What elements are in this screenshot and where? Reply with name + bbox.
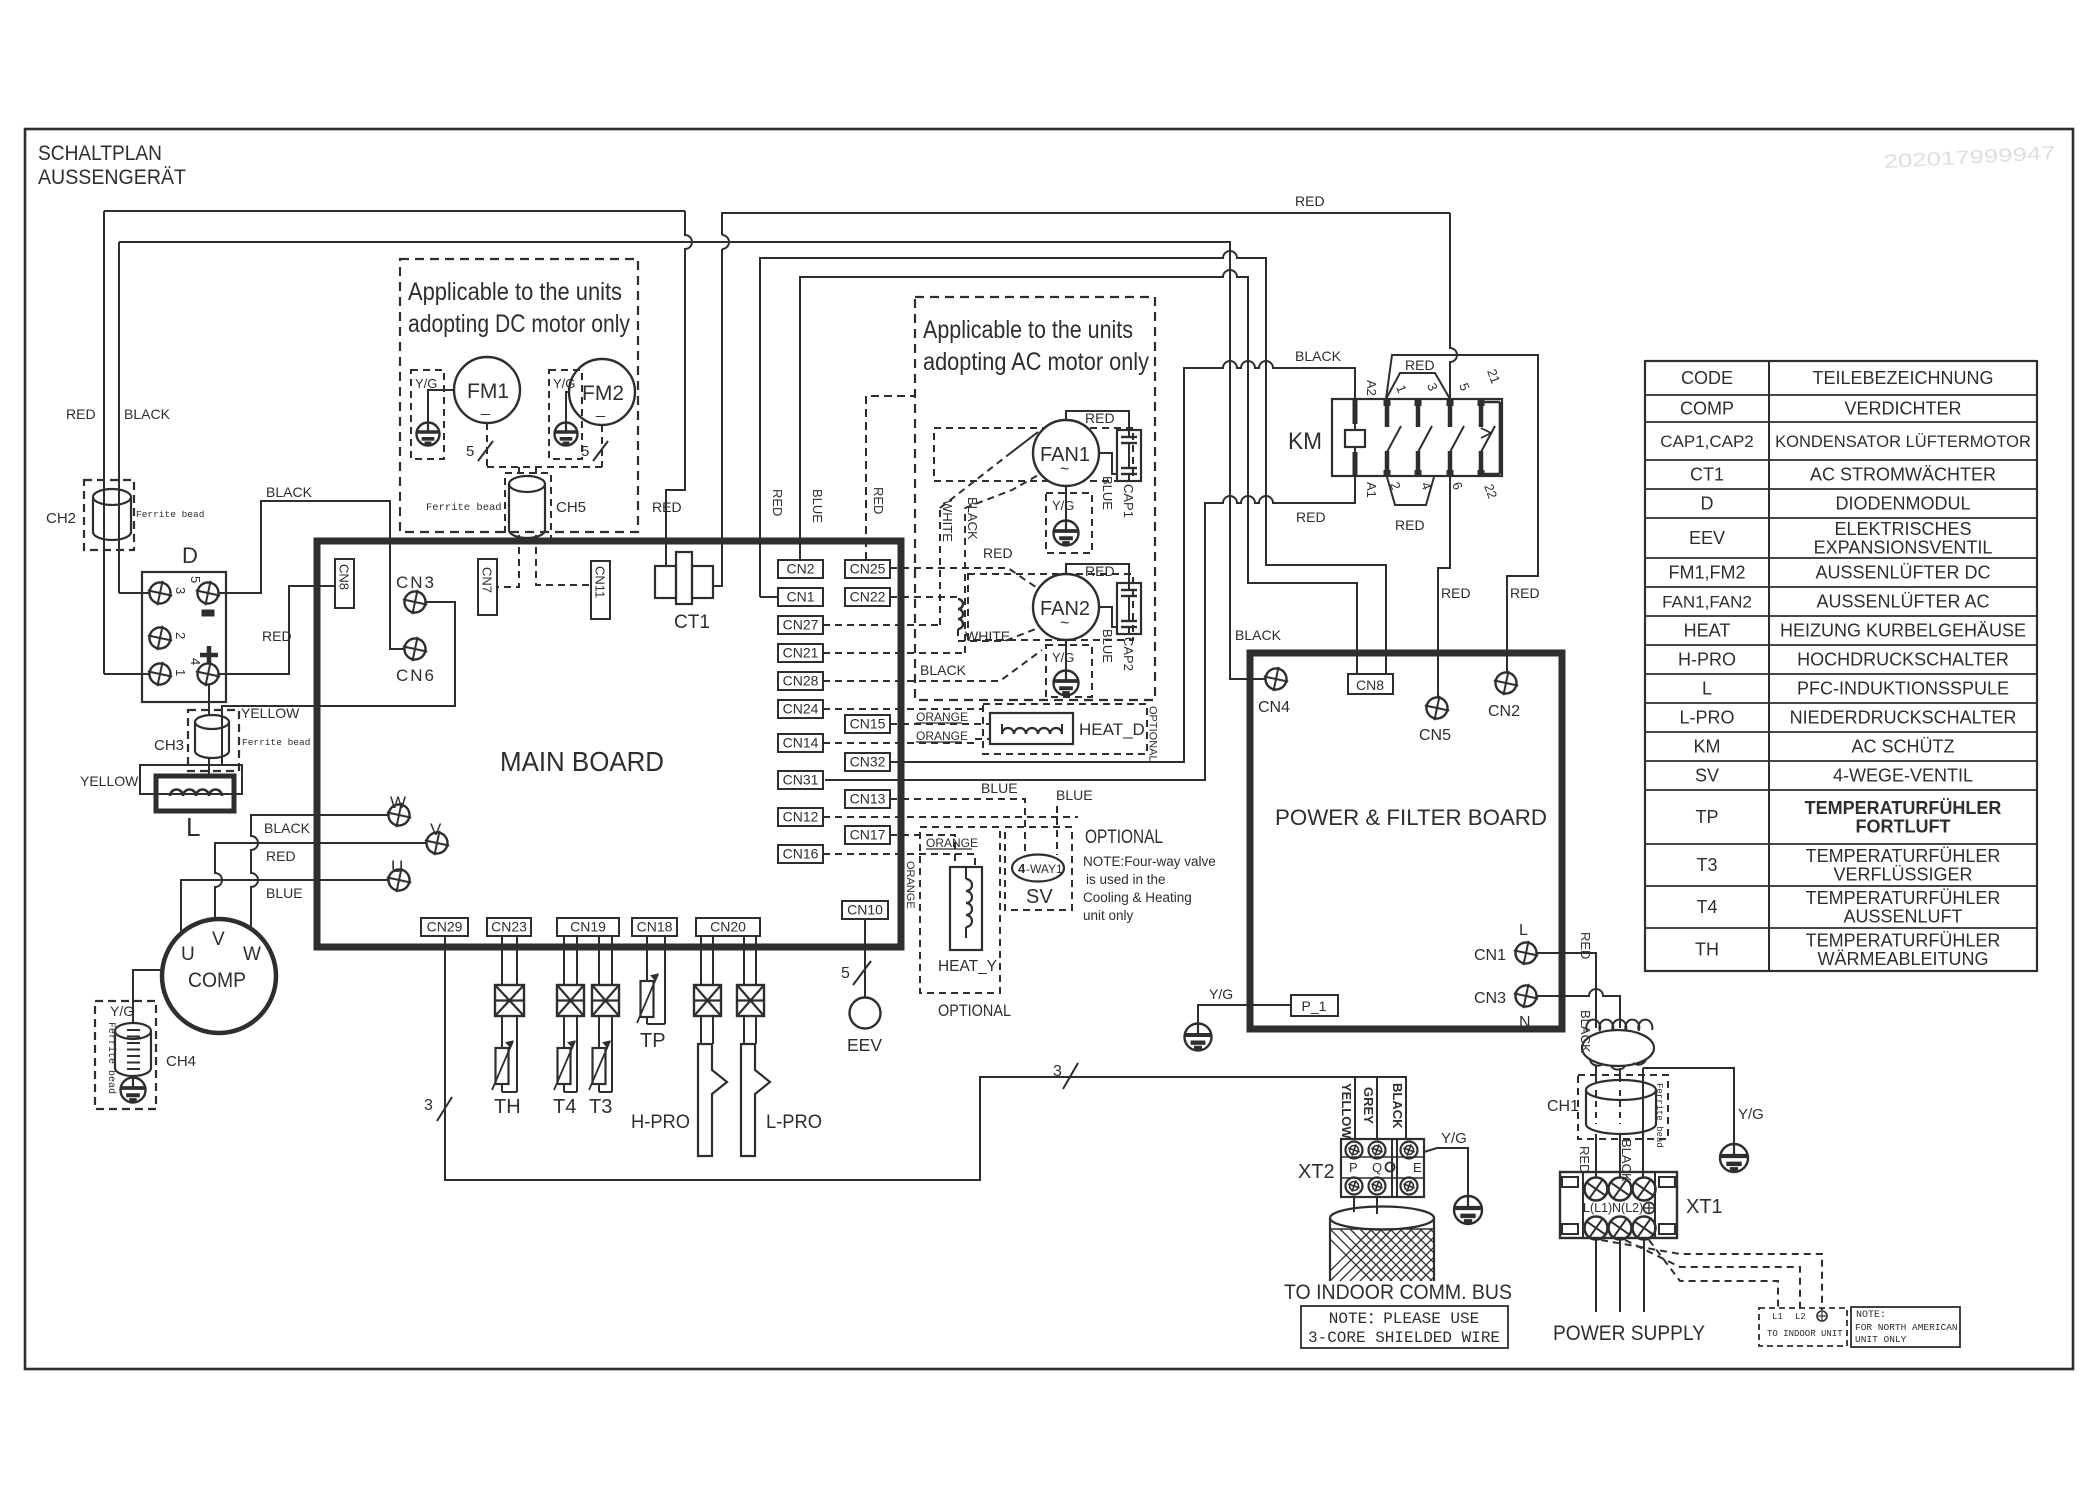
svg-text:BLUE: BLUE [266,885,303,901]
svg-text:D: D [182,543,198,568]
svg-text:AC SCHÜTZ: AC SCHÜTZ [1852,737,1955,757]
4-way valve SV [1012,855,1064,882]
svg-text:EEV: EEV [847,1035,882,1055]
terminal block XT2 [1341,1139,1424,1197]
wire FAN1 BLUE to CAP1 [1099,453,1117,474]
dashed CN14 ORANGE wire [823,739,990,743]
svg-text:is used in the: is used in the [1086,872,1166,887]
dashed harness to CH5 [487,466,602,468]
svg-text:SV: SV [1695,766,1719,786]
wire BLACK top-left vertical to CH2 [118,242,120,593]
connector CN23 [487,918,531,936]
svg-text:SV: SV [1026,886,1053,908]
ground terminal indoor [1817,1311,1827,1321]
note box shielded wire [1301,1306,1508,1348]
connector P_1 [1291,995,1338,1016]
svg-text:4: 4 [188,658,203,665]
svg-text:HEAT_D: HEAT_D [1079,720,1145,739]
svg-text:CN19: CN19 [570,919,606,935]
svg-text:Q: Q [1372,1160,1382,1175]
svg-text:ORANGE: ORANGE [916,710,968,724]
svg-text:Ferrite bead: Ferrite bead [242,737,310,748]
connector CN16 [778,845,823,863]
svg-text:FM1,FM2: FM1,FM2 [1668,563,1745,583]
svg-text:TO INDOOR UNIT: TO INDOOR UNIT [1767,1329,1843,1339]
svg-text:N(L2): N(L2) [1612,1201,1643,1215]
svg-text:UNIT ONLY: UNIT ONLY [1855,1334,1907,1345]
L-PRO wires [743,936,745,985]
connector CN14 [778,734,823,752]
svg-text:OPTIONAL: OPTIONAL [938,1002,1011,1020]
svg-text:AUSSENLÜFTER DC: AUSSENLÜFTER DC [1815,563,1990,583]
bus branch GREY [1376,1077,1378,1139]
wire B BLACK horizontal to KM area [119,242,1265,679]
screw CN5 [1422,693,1452,723]
parts table [1645,361,2037,971]
wire FM1 Y/G [428,390,454,423]
svg-text:OPTIONAL: OPTIONAL [1147,706,1159,762]
screw CN1 [1511,938,1541,968]
wire FAN2 RED to CAP2 [1066,564,1129,583]
svg-text:CN20: CN20 [710,919,746,935]
connector CN18 [632,918,677,936]
svg-text:CN6: CN6 [396,666,436,685]
svg-text:CN8: CN8 [1356,677,1384,693]
ground XT2 [1454,1196,1482,1224]
wire C CN1-RED to power CN8 (hop at 1230) [760,251,1386,674]
connector CN13 [845,790,890,808]
svg-text:H-PRO: H-PRO [1678,650,1736,670]
svg-text:Applicable to the units: Applicable to the units [408,278,622,306]
svg-text:Y/G: Y/G [1738,1106,1764,1123]
svg-text:BLACK: BLACK [1578,1010,1593,1053]
ground FAN2 [1054,671,1079,696]
svg-text:ORANGE: ORANGE [926,836,978,850]
svg-text:CN3: CN3 [396,573,436,592]
pressure switch H-PRO [698,1044,727,1156]
svg-text:RED: RED [1296,509,1326,525]
svg-text:CT1: CT1 [1690,465,1724,485]
connector CN11 [591,561,610,619]
svg-text:A2: A2 [1364,380,1379,396]
svg-text:BLACK: BLACK [124,406,171,422]
wire CN10 to EEV [864,919,866,998]
connector CN15 [845,715,890,733]
dashed CN16 wire [823,854,975,867]
dashed CN28 to FAN2 [823,650,1042,681]
svg-text:CN10: CN10 [847,902,883,918]
svg-text:CN22: CN22 [850,589,886,605]
svg-text:TO INDOOR COMM. BUS: TO INDOOR COMM. BUS [1284,1281,1512,1304]
ground P_1 [1185,1024,1212,1051]
svg-text:3: 3 [173,587,188,594]
thermistor T3 [593,1048,606,1084]
svg-text:U: U [391,857,403,876]
svg-text:WHITE: WHITE [965,628,1010,644]
TH sensor wires [501,936,503,985]
terminal block XT1 [1560,1172,1677,1244]
screw CN4 [1261,664,1291,694]
svg-text:CAP1,CAP2: CAP1,CAP2 [1660,432,1754,451]
dashed box TO INDOOR UNIT [1759,1308,1847,1346]
wires toroid to CH1 [1595,1066,1597,1082]
svg-text:DIODENMODUL: DIODENMODUL [1835,494,1970,514]
svg-text:CN1: CN1 [1474,947,1506,964]
connector CN31 [778,771,823,789]
heater HEAT_Y [950,867,982,950]
dashed CN17 wire [890,835,955,867]
wires XT2 to shielded cable [1353,1197,1355,1212]
svg-text:5: 5 [466,443,474,460]
svg-text:Y/G: Y/G [553,376,575,391]
wire FAN2 ground [1065,640,1067,671]
wire KM6 to power CN5 [1438,477,1450,697]
svg-text:POWER SUPPLY: POWER SUPPLY [1553,1321,1705,1345]
svg-text:W: W [243,944,261,965]
wire pin4 plus to CN8 [219,586,335,674]
ground FM1 [417,423,440,446]
pressure switch L-PRO [741,1044,770,1156]
svg-text:BLACK: BLACK [266,484,313,500]
screw CN6 [400,634,430,664]
connector CN29 [421,918,468,936]
main board outline [317,541,901,947]
svg-text:T4: T4 [553,1096,576,1118]
svg-text:VERFLÜSSIGER: VERFLÜSSIGER [1833,865,1972,885]
svg-text:L2: L2 [1795,1312,1806,1322]
svg-text:Ferrite bead: Ferrite bead [1654,1083,1664,1148]
svg-text:CN8: CN8 [337,564,352,590]
svg-text:L: L [186,812,200,842]
svg-text:CN16: CN16 [783,846,819,862]
connector CN22 [845,588,890,606]
svg-text:L(L1): L(L1) [1583,1201,1612,1215]
svg-text:CT1: CT1 [674,612,710,633]
svg-text:TEMPERATURFÜHLER: TEMPERATURFÜHLER [1806,888,2001,908]
svg-text:L-PRO: L-PRO [1679,708,1734,728]
dashed CH5 to CN11 [536,535,591,585]
svg-text:BLUE: BLUE [810,489,825,523]
svg-text:T3: T3 [589,1096,612,1118]
screw U [384,865,414,895]
svg-text:KM: KM [1288,428,1322,455]
svg-text:BLACK: BLACK [1390,1083,1405,1129]
svg-text:5: 5 [841,965,850,982]
capacitor CAP1 [1117,430,1141,481]
wire pin5 minus to CN6 [219,501,404,649]
svg-text:Y/G: Y/G [1052,650,1074,665]
T3 sensor wires [598,936,600,985]
ferrite bead CH4 [95,1001,156,1109]
svg-text:~: ~ [1060,461,1069,478]
T4 sensor wires [563,936,565,985]
svg-text:EXPANSIONSVENTIL: EXPANSIONSVENTIL [1814,538,1993,558]
dashed OPTIONAL box HEAT_Y [920,827,1000,993]
svg-text:_: _ [595,401,606,418]
T4 fuse [557,985,584,1016]
svg-text:CN14: CN14 [783,735,819,751]
svg-text:V: V [212,929,225,950]
svg-text:CN4: CN4 [1258,699,1290,716]
svg-text:HEAT_Y: HEAT_Y [938,958,997,975]
svg-text:RED: RED [1085,410,1115,426]
dashed box AC motors [915,297,1155,700]
wire pin4 down to CH3 [208,685,210,714]
ferrite bead CH3 [188,710,239,771]
svg-text:RED: RED [1405,357,1435,373]
cable hatch [1320,1229,1512,1281]
KM contact 1-2 [1384,399,1391,406]
svg-text:GREY: GREY [1361,1087,1376,1124]
dashed CH5 to CN7 [497,535,519,587]
wire CN31 to KM A1 RED [825,476,1355,780]
svg-text:VERDICHTER: VERDICHTER [1844,399,1961,419]
svg-text:Applicable to the units: Applicable to the units [923,316,1133,344]
dashed connector box FAN1 [934,428,1133,481]
svg-text:CH3: CH3 [154,737,184,754]
wire BLACK into pin3 [119,592,149,594]
ground right [1720,1144,1748,1172]
diode module D [142,572,226,702]
svg-text:Ferrite bead: Ferrite bead [136,509,204,520]
svg-text:L: L [1519,922,1528,939]
svg-text:2: 2 [173,632,188,639]
svg-text:RED: RED [983,545,1013,561]
svg-text:CN17: CN17 [850,827,886,843]
svg-text:adopting DC motor only: adopting DC motor only [408,310,630,338]
fan motor FM1 [454,357,520,423]
svg-text:NOTE:Four-way valve: NOTE:Four-way valve [1083,854,1216,869]
wire W BLACK to COMP (hops) [251,815,389,929]
wire CN3 BLACK to toroid (hop) [1537,989,1620,1028]
connector CN28 [778,672,823,690]
svg-text:NOTE：PLEASE USE: NOTE：PLEASE USE [1329,1310,1479,1328]
dashed CN25 RED to FAN2 [890,568,1040,590]
svg-text:TH: TH [1695,940,1719,960]
svg-text:RED: RED [1395,517,1425,533]
svg-text:V: V [430,820,442,839]
KM contact 3-4 [1415,399,1422,406]
slash 3 on CN29 drop [437,1097,452,1121]
connector CN27 [778,616,823,634]
TP sensor wires [646,936,648,981]
title SCHALTPLAN AUSSENGERAET [38,141,186,189]
TH fuse [495,985,524,1016]
svg-text:CN12: CN12 [783,809,819,825]
svg-text:NOTE:: NOTE: [1856,1310,1886,1321]
svg-text:CN29: CN29 [427,919,463,935]
svg-text:CN32: CN32 [850,754,886,770]
wire vertical x685 to CT1 (hops wire B) [666,211,692,566]
svg-text:3: 3 [1053,1063,1062,1080]
wire P_1 to ground Y/G [1198,1005,1291,1024]
toroid filter [1582,1020,1654,1070]
svg-text:ORANGE: ORANGE [904,861,916,909]
svg-text:~: ~ [1060,615,1069,632]
svg-text:Y/G: Y/G [1209,986,1233,1002]
svg-text:BLUE: BLUE [981,780,1018,796]
connector CN7 [478,559,497,615]
svg-text:SCHALTPLAN: SCHALTPLAN [38,141,162,165]
FM1 5-wire dashed [486,423,488,467]
connector CN8 main board [335,559,354,608]
wire RED top-left vertical to CH2 [103,211,105,674]
svg-text:TEMPERATURFÜHLER: TEMPERATURFÜHLER [1806,846,2001,866]
svg-text:AC STROMWÄCHTER: AC STROMWÄCHTER [1810,465,1996,485]
power and filter board outline [1250,653,1562,1029]
svg-text:WÄRMEABLEITUNG: WÄRMEABLEITUNG [1817,949,1988,969]
svg-text:CN21: CN21 [783,645,819,661]
wire CN32 to KM A2 BLACK [890,361,1355,762]
svg-text:NIEDERDRUCKSCHALTER: NIEDERDRUCKSCHALTER [1790,708,2017,728]
Y/G box FM1 [411,370,444,459]
thermistor TH [496,1048,509,1084]
wire FM2 Y/G [566,392,569,423]
svg-text:CN31: CN31 [783,772,819,788]
svg-text:CN11: CN11 [593,566,608,598]
svg-text:RED: RED [1578,932,1593,959]
connector CN19 [557,918,619,936]
svg-text:BLUE: BLUE [1056,787,1093,803]
svg-text:A1: A1 [1364,482,1379,498]
connector CN10 [842,901,888,919]
svg-text:HOCHDRUCKSCHALTER: HOCHDRUCKSCHALTER [1797,650,2009,670]
svg-text:4: 4 [1018,861,1026,876]
dashed box DC motors [400,259,638,532]
svg-text:OPTIONAL: OPTIONAL [1085,827,1163,848]
svg-text:POWER & FILTER BOARD: POWER & FILTER BOARD [1275,805,1547,830]
connector CN12 [778,808,823,826]
svg-text:4-WEGE-VENTIL: 4-WEGE-VENTIL [1833,766,1973,786]
thermistor TP [641,981,654,1017]
fan motor FAN2 [1033,574,1099,640]
wire D CN2-BLUE to power CN8 (hop at 1230) [800,270,1357,674]
inductor L housing [140,765,242,794]
Y/G box FAN2 [1046,645,1092,697]
svg-text:ORANGE: ORANGE [916,729,968,743]
svg-text:AUSSENGERÄT: AUSSENGERÄT [38,165,186,189]
wire V RED to COMP (hop) [215,843,427,919]
bus branch YELLOW [1354,1077,1356,1139]
connector CN21 [778,644,823,662]
svg-text:CN1: CN1 [786,589,814,605]
wire FAN1 RED to CAP1 [1066,411,1129,430]
wire FAN2 BLUE to CAP2 [1099,607,1117,627]
svg-text:CH1: CH1 [1547,1098,1579,1115]
shielded cable to indoor [1330,1207,1434,1282]
svg-text:CH2: CH2 [46,510,76,527]
svg-text:RED: RED [66,406,96,422]
screw W [384,800,414,830]
wire CH3 to L [208,758,210,776]
svg-text:Ferrite bead: Ferrite bead [105,1022,117,1094]
svg-text:CN25: CN25 [850,561,886,577]
svg-text:HEAT: HEAT [1684,621,1731,641]
svg-text:3-CORE SHIELDED WIRE: 3-CORE SHIELDED WIRE [1308,1329,1500,1347]
wires CH1 to XT1 [1595,1134,1597,1178]
wire A top RED horizontal [104,210,685,212]
fan motor FM2 [569,359,635,425]
svg-text:TH: TH [494,1096,521,1118]
wire KM5 top vertical (hop) [1450,213,1457,399]
svg-text:5: 5 [581,443,589,460]
connector CN17 [845,826,890,844]
dashed connector box FAN2 [968,574,1133,640]
svg-text:XT2: XT2 [1298,1161,1335,1183]
pin 4 [193,659,223,689]
svg-text:P_1: P_1 [1302,998,1327,1014]
svg-text:RED: RED [1510,585,1540,601]
Y/G box FAN1 [1046,493,1092,553]
svg-text:YELLOW: YELLOW [1339,1083,1354,1139]
svg-text:AUSSENLUFT: AUSSENLUFT [1843,907,1962,927]
screw CN3 [400,587,430,617]
pin 2 [145,623,175,653]
dashed wires to indoor unit [1601,1240,1822,1310]
svg-text:EEV: EEV [1689,528,1725,548]
FM2 5-wire dashed [601,425,603,467]
svg-text:3: 3 [424,1097,433,1114]
svg-text:RED: RED [262,628,292,644]
svg-text:BLUE: BLUE [1100,476,1115,510]
svg-text:BLACK: BLACK [1295,348,1342,364]
svg-text:Y/G: Y/G [415,376,437,391]
svg-text:FAN1,FAN2: FAN1,FAN2 [1662,593,1752,612]
svg-text:RED: RED [871,487,886,514]
svg-text:_: _ [480,399,491,416]
connector CN1 [778,588,823,606]
wire RED into pin1 [104,673,149,675]
wire CN3 yellow to L [222,602,455,765]
svg-text:D: D [1701,494,1714,514]
svg-text:CN23: CN23 [491,919,527,935]
wire CN1 RED to toroid [1537,953,1596,1028]
svg-text:1: 1 [173,669,188,676]
dashed CN24 wire [823,708,983,710]
svg-text:CN2: CN2 [1488,703,1520,720]
svg-text:CN28: CN28 [783,673,819,689]
svg-text:HEIZUNG KURBELGEHÄUSE: HEIZUNG KURBELGEHÄUSE [1780,621,2026,641]
connector CN24 [778,700,823,718]
slash 5 FM2 [593,441,608,461]
svg-text:CH5: CH5 [556,499,586,516]
svg-text:Y/G: Y/G [110,1003,134,1019]
comm bus 3-core wire CN29 to XT2 [445,936,1406,1180]
svg-text:PFC-INDUKTIONSSPULE: PFC-INDUKTIONSSPULE [1797,679,2009,699]
svg-text:RED: RED [1295,193,1325,209]
svg-text:T3: T3 [1696,855,1717,875]
svg-text:unit only: unit only [1083,908,1134,923]
dashed OPTIONAL box HEAT_D [983,704,1147,754]
slash 3 on bus [1063,1063,1078,1089]
svg-text:CAP2: CAP2 [1121,637,1136,671]
connector CN32 [845,753,890,771]
svg-text:L: L [1702,679,1712,699]
ground FM2 [555,423,578,446]
ground FAN1 [1054,521,1079,546]
svg-text:CN15: CN15 [850,716,886,732]
connector CN2 [778,560,823,578]
svg-text:Ferrite bead: Ferrite bead [426,502,502,514]
svg-text:Y/G: Y/G [1052,498,1074,513]
svg-text:TP: TP [1695,807,1718,827]
svg-text:-WAY1: -WAY1 [1026,862,1063,876]
svg-text:W: W [390,793,406,812]
dashed RED wire to CN25 [866,396,915,560]
pin 1 [145,659,175,689]
svg-text:TP: TP [640,1030,666,1052]
svg-text:BLACK: BLACK [965,497,980,540]
